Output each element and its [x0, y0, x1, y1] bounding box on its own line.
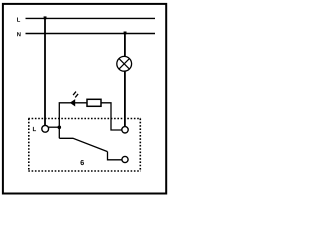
wire N rail — [26, 33, 156, 35]
junction dot on branch — [58, 126, 62, 130]
wire from N rail down to lamp — [124, 34, 126, 58]
actuation ticks above arrow — [73, 92, 76, 96]
terminal L circle — [42, 125, 49, 132]
wire from L rail down to switch terminal — [44, 18, 46, 125]
arrowhead pointing left — [70, 99, 75, 106]
wire branch right side — [101, 103, 122, 130]
dashed enclosure top edge — [28, 118, 141, 120]
border frame — [3, 4, 166, 194]
switch type label 6 — [80, 160, 83, 165]
dashed enclosure left edge — [28, 119, 30, 172]
wire blade to lower terminal — [108, 152, 122, 160]
dashed enclosure right edge — [139, 119, 141, 172]
junction dot on L rail — [44, 16, 47, 19]
lamp E1 — [117, 56, 132, 71]
wire from lamp down to switch terminal — [124, 71, 126, 127]
node L label — [17, 18, 20, 22]
resistor R1 — [87, 99, 101, 106]
switch blade — [59, 138, 107, 151]
switch terminal label L — [33, 127, 36, 131]
junction dot on N rail — [124, 32, 127, 35]
wire branch horizontal (load sensing branch) — [59, 103, 87, 138]
terminal lower-right circle — [122, 156, 128, 162]
dashed enclosure bottom edge — [28, 170, 141, 172]
terminal upper-right circle — [122, 127, 128, 133]
node N label — [17, 32, 20, 36]
wire connector from L terminal to branch — [45, 126, 59, 128]
wire L rail — [26, 17, 156, 19]
